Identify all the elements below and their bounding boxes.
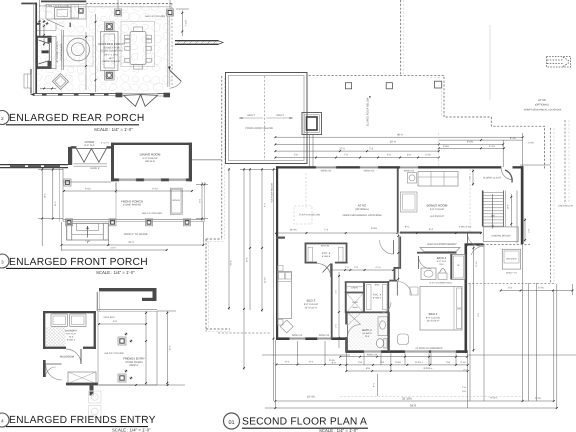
outdoor fireplace	[36, 36, 38, 69]
bath3 toilet	[384, 339, 387, 349]
svg-text:BUILT-IN ENTERTAINMENT: BUILT-IN ENTERTAINMENT	[427, 243, 457, 246]
bath3 vanity	[378, 317, 388, 336]
counter return wall	[70, 23, 71, 28]
svg-text:BRM: BRM	[375, 283, 380, 286]
porch left edge wall	[35, 3, 37, 94]
bench	[170, 188, 182, 214]
bottom wall right portion with windows	[345, 350, 364, 353]
svg-text:9'-4½: 9'-4½	[329, 359, 335, 362]
bed3 bottom wall with windows	[276, 337, 290, 340]
svg-text:5'-0: 5'-0	[294, 154, 299, 157]
rear porch bottom wall	[34, 93, 116, 95]
svg-text:29'-0: 29'-0	[128, 241, 134, 244]
svg-text:SCALE : 1/4" = 1'-0": SCALE : 1/4" = 1'-0"	[94, 127, 133, 132]
svg-text:7'-10½: 7'-10½	[185, 20, 188, 27]
svg-text:9'-1½: 9'-1½	[475, 261, 478, 267]
svg-text:TILE: TILE	[69, 335, 74, 338]
svg-text:P.I.C. 4: P.I.C. 4	[373, 294, 382, 297]
dim cluster left of porch	[38, 21, 41, 23]
stair left wall	[482, 191, 484, 227]
bed3 chair diamond	[280, 320, 293, 333]
round table	[67, 38, 90, 61]
bath4 toilet	[438, 273, 447, 280]
front steps	[67, 223, 109, 240]
deck columns top	[345, 83, 351, 89]
svg-text:9'-½: 9'-½	[373, 383, 376, 387]
column mid top	[105, 22, 115, 32]
svg-text:DROP TABLE 8": DROP TABLE 8"	[103, 60, 121, 63]
closet pic3	[305, 243, 348, 245]
svg-text:12'-4"x11'-4": 12'-4"x11'-4"	[305, 306, 318, 309]
bath3 door arc	[348, 325, 360, 337]
svg-text:BROOM: BROOM	[321, 245, 329, 248]
svg-text:(OPTIONAL): (OPTIONAL)	[535, 103, 549, 106]
bed4 left wall	[387, 312, 389, 352]
svg-text:9'-10 ±: 9'-10 ±	[491, 397, 499, 400]
svg-text:DRESSER: DRESSER	[506, 258, 517, 261]
svg-text:SCALE : 1/4" = 1'-0": SCALE : 1/4" = 1'-0"	[112, 428, 151, 432]
left vertical dims of plan	[243, 168, 245, 370]
svg-text:22'-0: 22'-0	[339, 147, 345, 150]
porch bottom edge	[63, 219, 205, 221]
spa diamond	[53, 74, 69, 90]
svg-text:LAUNDRY: LAUNDRY	[65, 330, 78, 333]
dining rug	[121, 22, 155, 67]
title: SECOND FLOOR PLAN A	[224, 413, 240, 429]
svg-text:BATH 4: BATH 4	[437, 257, 447, 260]
svg-text:SHWR: SHWR	[352, 301, 359, 304]
svg-text:WDW 214: WDW 214	[404, 170, 415, 173]
svg-text:±14'-0"x15'-0": ±14'-0"x15'-0"	[430, 215, 444, 218]
bonus room table	[401, 192, 418, 212]
svg-text:9'-6½: 9'-6½	[443, 145, 449, 148]
svg-text:30'-8: 30'-8	[246, 257, 249, 263]
stair down arrow	[492, 194, 494, 229]
svg-text:ENLARGED FRONT PORCH: ENLARGED FRONT PORCH	[9, 257, 148, 268]
svg-text:WDW 214: WDW 214	[364, 170, 375, 173]
buffet console	[101, 32, 119, 71]
solid line right mid	[520, 164, 550, 166]
mini roof detail top right	[547, 57, 571, 68]
svg-text:5'-7½: 5'-7½	[535, 397, 541, 400]
laundry walls	[43, 311, 96, 313]
svg-text:21'-0: 21'-0	[110, 247, 116, 250]
divider wall linen/pic4	[363, 281, 365, 312]
line from dining to roof dash	[192, 159, 222, 161]
dashed left roof extension	[218, 332, 270, 334]
svg-text:(2) WDW 214 MIRRORED: (2) WDW 214 MIRRORED	[415, 347, 442, 350]
porch column top left	[115, 9, 122, 16]
side cabinet	[71, 5, 79, 19]
bottom wall right segment	[158, 93, 171, 95]
bath4 tub	[452, 255, 465, 280]
top wall segments	[276, 166, 316, 168]
leader diagonal	[47, 20, 64, 28]
dashed roof vertical to top edge	[400, 0, 402, 75]
bed4 bed	[420, 287, 462, 331]
bed4 nightstand	[410, 287, 418, 295]
hall door to bonus	[380, 240, 394, 254]
grill counter	[46, 5, 86, 20]
raised hearth	[52, 37, 57, 69]
shower room	[347, 293, 364, 312]
svg-text:01: 01	[228, 420, 234, 426]
svg-text:WIRE BRD: WIRE BRD	[104, 316, 115, 319]
svg-text:SCALE : 1/4" = 1'-0": SCALE : 1/4" = 1'-0"	[96, 270, 135, 275]
bottom wall extension lines	[345, 353, 347, 371]
stair rail	[503, 191, 505, 227]
hall dim line	[333, 269, 394, 271]
svg-text:13'-4"x12'-0": 13'-4"x12'-0"	[427, 320, 440, 323]
svg-text:7'-4: 7'-4	[369, 147, 374, 150]
rear porch top dashed roof edge	[86, 3, 173, 5]
right dims front porch	[201, 184, 203, 186]
dim line mid porch right	[116, 190, 192, 192]
chimney extension lines	[309, 135, 311, 168]
svg-text:WD FLR: WD FLR	[145, 160, 154, 163]
svg-text:9'-1½: 9'-1½	[510, 137, 516, 140]
right dim vertical	[181, 11, 183, 37]
entry columns	[118, 337, 126, 345]
left dims front porch	[41, 168, 43, 246]
svg-text:12'-4: 12'-4	[169, 345, 172, 351]
dining room walls	[111, 143, 114, 182]
svg-text:DROP 6" TO GRADE: DROP 6" TO GRADE	[124, 233, 148, 236]
bed4 right wall	[465, 244, 468, 353]
bath3 tiles	[348, 313, 387, 349]
bonus room couch	[418, 172, 458, 187]
svg-text:WDW 214: WDW 214	[292, 334, 303, 337]
pic4 closet	[365, 281, 389, 283]
svg-text:BED 4: BED 4	[429, 312, 438, 316]
shower swing door	[348, 313, 361, 325]
small dot	[369, 96, 371, 98]
landing door arc	[471, 246, 484, 255]
landing below box	[483, 227, 518, 242]
attic-bonus divider wall	[397, 169, 399, 233]
svg-text:BONUS ROOM: BONUS ROOM	[427, 204, 448, 208]
svg-text:6x6 D.F. COLUMN: 6x6 D.F. COLUMN	[145, 15, 165, 18]
svg-text:FLR PLAN BELOW: FLR PLAN BELOW	[299, 214, 320, 217]
porch column mid-left	[64, 179, 71, 186]
mudroom bench	[68, 372, 96, 384]
svg-text:BED 3: BED 3	[307, 299, 316, 303]
left outer wall	[276, 166, 278, 339]
linen closet	[345, 281, 365, 283]
porch roof below room (top-left of plan)	[226, 73, 308, 164]
svg-text:40'-6: 40'-6	[397, 133, 403, 136]
svg-text:3'-0: 3'-0	[407, 154, 412, 157]
dashed roofline between details	[221, 76, 223, 239]
hall/bonus divider wall right	[399, 237, 401, 268]
side table with lamp	[408, 173, 417, 184]
svg-text:9'-½: 9'-½	[405, 225, 410, 228]
friends entry dims	[145, 311, 147, 385]
stair block right wall	[521, 166, 524, 244]
svg-text:9'-10: 9'-10	[152, 188, 158, 191]
bed4 door	[397, 282, 411, 296]
right dashed porch line	[171, 4, 173, 89]
plan bottom extension verticals	[274, 340, 276, 408]
vault arrows	[239, 117, 263, 119]
svg-text:ATTIC: ATTIC	[358, 204, 367, 208]
svg-text:FRONT PORCH: FRONT PORCH	[121, 199, 143, 203]
svg-text:36x60: 36x60	[352, 306, 358, 309]
top wall windows	[316, 167, 336, 169]
bottom wall post	[116, 93, 123, 98]
inner stair wall	[516, 191, 518, 244]
divider door arc	[468, 234, 481, 247]
svg-text:7'-4: 7'-4	[324, 229, 329, 232]
svg-text:WDW 214: WDW 214	[319, 334, 330, 337]
svg-text:3'-6½: 3'-6½	[395, 361, 401, 364]
svg-text:VERIFY MECHANICAL LOCATIONS: VERIFY MECHANICAL LOCATIONS	[342, 214, 382, 217]
bed3 bottom dims	[262, 354, 350, 356]
entry door at top right	[501, 168, 512, 179]
svg-text:BATH 3: BATH 3	[362, 329, 372, 332]
mudroom bottom wall	[66, 383, 98, 386]
svg-text:2'-10: 2'-10	[425, 154, 431, 157]
column center marks	[129, 340, 132, 342]
door bottom right of rear porch	[168, 67, 171, 71]
svg-text:32'-10½: 32'-10½	[402, 397, 413, 401]
dim stack above plan	[275, 136, 522, 138]
svg-text:19'-4½: 19'-4½	[289, 229, 296, 232]
svg-text:VAULT: VAULT	[247, 114, 255, 117]
round table rug	[63, 36, 93, 66]
dim line mid porch	[64, 190, 116, 192]
upper dashed roof outline	[309, 75, 545, 168]
svg-text:(OPTIONAL): (OPTIONAL)	[355, 208, 369, 211]
svg-text:PORCH ROOF BELOW: PORCH ROOF BELOW	[245, 127, 273, 130]
svg-text:WDW 214: WDW 214	[367, 354, 378, 357]
svg-text:VERIFY MECHANICAL LOCATIONS: VERIFY MECHANICAL LOCATIONS	[524, 109, 562, 112]
svg-text:6x6 D.F. COLUMN: 6x6 D.F. COLUMN	[104, 352, 123, 355]
left cut exterior wall	[0, 164, 68, 166]
svg-text:9'-6½: 9'-6½	[85, 188, 91, 191]
right vertical extension lines	[522, 244, 524, 401]
svg-text:ATTIC: ATTIC	[538, 98, 546, 102]
bath4 vanity	[421, 268, 436, 280]
foyer double door X	[76, 149, 91, 163]
svg-text:30'-½: 30'-½	[390, 141, 397, 144]
svg-text:SCALE : 1/4" = 1'-0": SCALE : 1/4" = 1'-0"	[319, 428, 358, 432]
svg-text:MUDROOM: MUDROOM	[60, 356, 74, 359]
svg-text:SLOPED CLG AT: SLOPED CLG AT	[483, 176, 502, 179]
right side dashed roof lines	[550, 128, 552, 283]
rear porch top wall	[21, 3, 37, 5]
bottom dims front porch	[62, 244, 204, 246]
round table dims	[61, 30, 63, 70]
svg-text:9'-0" FLOORING WALL: 9'-0" FLOORING WALL	[430, 282, 454, 285]
wall from bed4 to stair	[465, 243, 484, 245]
mudroom walls and door	[43, 360, 46, 377]
attic dim line	[276, 232, 481, 234]
svg-text:4'-1½: 4'-1½	[375, 266, 380, 269]
svg-text:9'-6½: 9'-6½	[467, 141, 474, 144]
jog wall	[345, 338, 347, 352]
svg-text:STONE COUNTERS: STONE COUNTERS	[100, 50, 123, 53]
porch columns bottom row	[66, 219, 73, 226]
svg-text:9'-0" CLG A/C: 9'-0" CLG A/C	[304, 303, 319, 306]
left slab lower wall	[30, 69, 32, 94]
svg-text:9'-0x5'-2: 9'-0x5'-2	[67, 338, 76, 341]
dresser below stairs	[502, 249, 520, 269]
right cut wall to house	[175, 40, 219, 42]
svg-text:4'-2½: 4'-2½	[489, 145, 495, 148]
laundry tile hatch	[46, 327, 66, 347]
svg-text:9'-½: 9'-½	[264, 203, 267, 207]
attic faint dash rect	[294, 206, 312, 224]
svg-text:STONE VENEER: STONE VENEER	[60, 43, 63, 61]
svg-text:LINEN BELOW: LINEN BELOW	[558, 205, 574, 208]
svg-text:5'-4x7'-0: 5'-4x7'-0	[101, 142, 110, 145]
left wall inner face below counter	[36, 23, 41, 25]
bed3 right wall / hall left wall	[331, 264, 333, 340]
svg-text:SLOPED ROOF BELOW: SLOPED ROOF BELOW	[367, 97, 370, 126]
svg-text:34'-0: 34'-0	[410, 404, 417, 408]
stair treads	[484, 193, 504, 227]
svg-text:VAULT: VAULT	[276, 114, 284, 117]
fireplace label bar	[42, 50, 49, 53]
svg-text:4'-2½: 4'-2½	[528, 142, 534, 145]
right porch edge	[167, 16, 169, 87]
bed3 door arc into bed3	[318, 264, 331, 277]
svg-text:9'-0" CLG: 9'-0" CLG	[437, 260, 447, 263]
svg-text:P.I.C. 3: P.I.C. 3	[322, 252, 331, 255]
svg-text:42" RAISED HEARTH: 42" RAISED HEARTH	[56, 41, 59, 63]
svg-text:16'-2: 16'-2	[43, 193, 46, 199]
svg-text:9'-6½: 9'-6½	[371, 227, 377, 230]
right mid dims	[524, 218, 526, 242]
side burner box	[79, 9, 84, 14]
svg-text:13'-0: 13'-0	[54, 201, 57, 207]
bottom dim rows of plan	[340, 356, 467, 358]
title: ENLARGED FRONT PORCH	[0, 254, 9, 268]
svg-text:8'-0" CLG: 8'-0" CLG	[85, 144, 95, 147]
dim right short rows	[439, 139, 523, 141]
pic4 door arc	[380, 302, 391, 313]
svg-text:8'-4: 8'-4	[429, 228, 434, 231]
bonus dim x470	[469, 169, 471, 232]
pic3 door arcs	[317, 264, 331, 278]
svg-text:5'-7½: 5'-7½	[538, 287, 544, 290]
bath4 door arc	[419, 256, 432, 269]
house edge line down to laundry	[96, 292, 98, 311]
svg-text:WDW 214: WDW 214	[321, 170, 332, 173]
svg-text:SHELF 7-6: SHELF 7-6	[506, 272, 518, 275]
house corner wall above entry	[99, 288, 153, 291]
dining bottom wall segments with windows	[111, 178, 119, 181]
bed3 left partial wall top	[276, 237, 285, 239]
svg-text:DN: DN	[491, 215, 495, 218]
svg-text:DROP 6": DROP 6"	[129, 364, 139, 367]
fireplace dim cluster	[43, 24, 45, 46]
faint roof line right	[489, 25, 491, 100]
svg-text:5'-0x8'-4: 5'-0x8'-4	[373, 297, 382, 300]
svg-text:9'-0" CLG A/C: 9'-0" CLG A/C	[430, 208, 445, 211]
dashed line below stairs	[475, 243, 530, 245]
rear porch flagstone floor	[36, 4, 174, 91]
dining chairs	[125, 35, 130, 39]
svg-text:9'-0" CLG: 9'-0" CLG	[66, 333, 76, 336]
svg-text:ENLARGED REAR PORCH: ENLARGED REAR PORCH	[9, 113, 145, 124]
svg-text:STONE PAVERS: STONE PAVERS	[125, 361, 143, 364]
bonus/bed4 divider wall	[400, 232, 481, 234]
foyer top wall segments	[71, 146, 77, 148]
svg-text:BENCH: BENCH	[172, 199, 180, 202]
foyer left wall jamb	[68, 147, 72, 165]
svg-text:LANDING BELOW: LANDING BELOW	[491, 234, 511, 237]
dining table	[130, 32, 146, 65]
svg-text:DROP 6": DROP 6"	[90, 167, 100, 170]
svg-text:6x6 D.F. COLUMN: 6x6 D.F. COLUMN	[142, 212, 162, 215]
svg-text:50'-8: 50'-8	[230, 260, 233, 266]
svg-text:9'-10½ ±: 9'-10½ ±	[424, 367, 434, 370]
bed4 chair	[398, 334, 409, 345]
svg-text:19'-4½: 19'-4½	[307, 396, 316, 399]
front porch slab edges	[62, 168, 64, 222]
column mid bottom	[105, 71, 115, 81]
title: ENLARGED FRIENDS ENTRY	[0, 413, 9, 427]
svg-text:2'-8½ 3'-1½: 2'-8½ 3'-1½	[459, 225, 471, 228]
svg-text:6'-4x5'-8: 6'-4x5'-8	[322, 255, 331, 258]
bath4 left dim	[397, 234, 399, 281]
dashed overall dim	[340, 396, 522, 398]
svg-text:14 R: 14 R	[506, 204, 509, 209]
svg-text:±8'-6x8'-0: ±8'-6x8'-0	[362, 332, 372, 335]
laundry door to mudroom	[66, 349, 81, 364]
svg-text:SECOND FLOOR PLAN A: SECOND FLOOR PLAN A	[242, 417, 367, 428]
rear porch french doors	[123, 92, 158, 94]
bed3 bed	[278, 272, 292, 319]
svg-text:11'-1½: 11'-1½	[264, 277, 267, 284]
svg-text:STONE PAVERS: STONE PAVERS	[123, 204, 142, 207]
foyer step lines	[74, 163, 107, 165]
svg-text:ENLARGED FRIENDS ENTRY: ENLARGED FRIENDS ENTRY	[9, 415, 156, 426]
porch column top right	[167, 9, 174, 16]
ghost footing squares	[89, 391, 102, 418]
svg-text:TILE: TILE	[365, 335, 370, 338]
bath4 wall segments	[450, 254, 452, 280]
long gray line to right edge	[467, 354, 576, 356]
hall width dim	[338, 272, 340, 348]
svg-text:7'-10: 7'-10	[85, 240, 91, 243]
stair dim	[510, 194, 512, 227]
linen-shower-bath left wall	[345, 282, 347, 312]
svg-text:9'-4½ ±: 9'-4½ ±	[415, 361, 423, 364]
vault center dashed line	[264, 76, 266, 160]
svg-text:TILE: TILE	[439, 263, 444, 266]
svg-text:FOYER: FOYER	[85, 140, 95, 144]
svg-text:9'-0" CLG A/C: 9'-0" CLG A/C	[426, 316, 441, 319]
pic3 shelves	[308, 247, 313, 262]
svg-text:3'-1½: 3'-1½	[460, 361, 466, 364]
washer dryer	[51, 314, 68, 327]
svg-text:7'-0: 7'-0	[344, 154, 349, 157]
chimney box	[302, 113, 322, 135]
svg-text:5'-0: 5'-0	[387, 154, 392, 157]
entry slab	[98, 309, 157, 311]
title: ENLARGED REAR PORCH	[0, 111, 9, 125]
svg-text:FRIENDS ENTRY: FRIENDS ENTRY	[123, 358, 145, 361]
